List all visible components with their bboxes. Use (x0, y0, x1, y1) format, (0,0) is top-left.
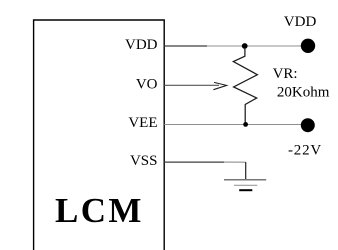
svg-text:20Kohm: 20Kohm (277, 84, 330, 100)
junction dot VDD node (242, 43, 248, 49)
terminal VDD supply (301, 39, 315, 53)
svg-text:LCM: LCM (55, 191, 144, 230)
svg-text:VEE: VEE (128, 115, 157, 131)
wire VSS vertical drop (245, 162, 247, 180)
svg-text:VDD: VDD (284, 14, 317, 30)
wire VO arrow line (164, 84, 219, 86)
ground bar 3 (239, 189, 252, 191)
ground bar 2 (234, 184, 257, 186)
arrowhead VO wiper (213, 82, 226, 89)
wire VDD rail light segment (207, 45, 304, 47)
LCM module box (34, 20, 165, 250)
svg-text:-22V: -22V (288, 142, 322, 158)
svg-text:VSS: VSS (130, 153, 158, 169)
svg-text:VDD: VDD (125, 37, 158, 53)
wire VDD rail dark segment (164, 45, 207, 47)
terminal -22V supply (301, 118, 315, 132)
wire VSS dark segment (164, 161, 224, 163)
svg-text:VO: VO (136, 77, 158, 93)
svg-text:VR:: VR: (273, 66, 298, 82)
ground bar 1 (224, 179, 266, 181)
potentiometer VR1 zigzag (233, 49, 257, 122)
junction dot VEE node (243, 122, 248, 127)
wire VEE rail (164, 124, 304, 126)
wire VSS light segment (224, 161, 246, 163)
